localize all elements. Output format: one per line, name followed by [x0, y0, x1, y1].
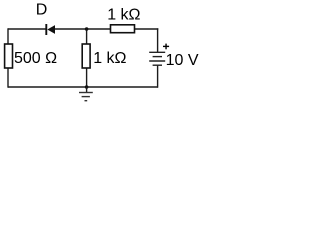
ground bar 1: [79, 92, 93, 94]
diode D triangle: [47, 25, 55, 34]
wire middle branch: [86, 29, 88, 87]
resistor R3 1 kOhm body (vertical, middle): [82, 44, 90, 68]
wire top from left corner to diode: [8, 28, 46, 30]
battery V1 plate short: [153, 56, 162, 58]
node A junction dot (top): [85, 27, 89, 31]
svg-text:D: D: [36, 2, 48, 19]
svg-text:10 V: 10 V: [166, 52, 199, 69]
wire right branch upper (to battery + plate): [157, 28, 159, 52]
ground bar 2: [82, 96, 90, 98]
resistor R1 500 Ohm body (vertical, left): [5, 44, 13, 68]
svg-text:1 kΩ: 1 kΩ: [107, 7, 140, 24]
svg-text:500 Ω: 500 Ω: [14, 50, 57, 67]
wire bottom: [8, 86, 158, 88]
ground bar 3: [85, 100, 88, 102]
wire top from diode to node A: [55, 28, 87, 30]
diode D cathode bar: [45, 24, 47, 35]
wire top from resistor R2 to right corner: [135, 28, 159, 30]
resistor R2 1 kOhm body (horizontal, top): [111, 25, 135, 33]
battery V1 plate short bottom: [153, 64, 162, 66]
ground stub: [86, 87, 88, 92]
battery V1 plate long top: [149, 51, 165, 53]
wire right branch lower (from battery - plate): [157, 65, 159, 87]
wire top from node A to resistor R2: [87, 28, 111, 30]
svg-text:1 kΩ: 1 kΩ: [93, 50, 126, 67]
node B junction dot (bottom): [85, 85, 89, 89]
wire left branch: [7, 28, 9, 87]
battery V1 plus sign: [163, 44, 169, 50]
battery V1 plate long: [149, 60, 165, 62]
